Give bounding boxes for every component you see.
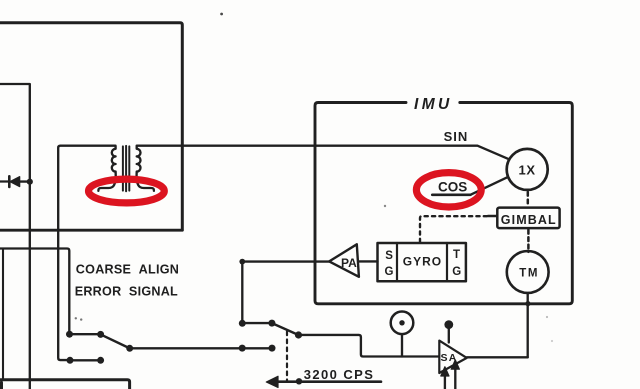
relay K1 lower contact dots — [67, 357, 74, 364]
transformer T1 secondary (right winding) — [137, 146, 154, 191]
wire: coarse align node to PA input — [242, 260, 329, 262]
wire: TM stem up — [527, 251, 529, 252]
svg-text:COARSE ALIGN: COARSE ALIGN — [76, 263, 179, 277]
wire: SA output to TM line — [467, 356, 528, 358]
wire: thick line y=230 — [0, 229, 182, 232]
gyro box divider TG — [446, 243, 448, 281]
svg-text:SA: SA — [441, 352, 458, 364]
wire: relay K1 common to K2 lower contacts — [130, 347, 272, 349]
wire: diode feed — [0, 180, 8, 182]
TM circle — [507, 251, 549, 293]
wire: COS underline — [432, 193, 470, 196]
annotation: red ellipse around COS — [416, 173, 481, 207]
diode CR1 — [9, 176, 27, 187]
wire: PA output to gyro — [359, 260, 378, 262]
transformer T1 box: top edge and left edge down to relay — [58, 146, 115, 360]
up arrow 1 into SA — [444, 371, 446, 389]
test point circle-dot — [391, 312, 414, 335]
relay K1 common dot — [126, 345, 133, 352]
relay K2 common dot — [295, 331, 302, 338]
servo amp SA triangle — [439, 341, 467, 373]
wire: COS lead to resolver — [470, 177, 508, 195]
bottom-left box top edge — [0, 380, 130, 389]
svg-text:1X: 1X — [519, 163, 536, 178]
relay K2 arm — [272, 323, 299, 335]
svg-text:GYRO: GYRO — [403, 255, 442, 269]
relay K2 upper contact bar — [242, 322, 272, 324]
svg-text:TM: TM — [519, 267, 539, 279]
svg-text:ERROR SIGNAL: ERROR SIGNAL — [75, 284, 178, 298]
svg-text:S: S — [385, 250, 393, 262]
wire: TM down through IMU edge to SA output — [527, 293, 529, 357]
wire: left bus corner x=30 — [0, 84, 30, 389]
relay K2 contact dots — [239, 320, 246, 327]
svg-text:3200 CPS: 3200 CPS — [304, 367, 374, 382]
svg-text:IMU: IMU — [414, 96, 453, 113]
junction dot: coarse align node — [239, 259, 245, 265]
junction dot: diode to bus — [27, 179, 33, 185]
wire: secondary output to IMU resolver (SIN) — [137, 146, 509, 159]
IMU box (gap in top edge for label) — [315, 103, 572, 304]
wire: test point stem — [401, 334, 403, 356]
3200 CPS reference line with left arrow — [270, 380, 381, 383]
wire: coarse align feed with corner to relay K1 — [0, 249, 69, 334]
up arrow 2 into SA — [454, 365, 456, 389]
relay K1 lower contact bar — [70, 359, 101, 361]
svg-text:T: T — [453, 249, 460, 261]
dashed link: gimbal to TM — [527, 230, 530, 251]
wire: control dot to servo amp — [448, 329, 450, 343]
transformer T1 primary (left winding) — [98, 146, 115, 191]
wire: left stub x=3 — [2, 249, 4, 380]
dashed actuator linkage K2 — [286, 332, 288, 382]
svg-text:COS: COS — [438, 180, 467, 195]
relay K1 contact dots — [66, 331, 73, 338]
svg-text:PA: PA — [341, 256, 357, 270]
svg-text:G: G — [385, 266, 394, 278]
gyro box divider SG — [396, 243, 398, 281]
dashed link: gyro to gimbal — [420, 216, 488, 242]
relay K1 upper contact bar — [70, 333, 101, 335]
junction dot on 3200 CPS line — [296, 378, 302, 384]
relay K1 arm — [101, 334, 130, 348]
transformer T1 core — [122, 146, 124, 190]
svg-text:G: G — [452, 266, 461, 278]
resolver 1X — [507, 149, 548, 190]
control node dot above servo amp — [444, 320, 453, 329]
gyro assembly box — [378, 243, 466, 281]
dashed link: resolver to gimbal — [527, 192, 530, 207]
preamp PA triangle — [329, 244, 359, 276]
gimbal box — [497, 208, 559, 229]
relay K2 lower contact dots — [239, 345, 246, 352]
wire: coarse align node down to relay K2 — [241, 262, 243, 323]
svg-text:SIN: SIN — [444, 129, 469, 144]
annotation: red ellipse around transformer leads — [89, 179, 165, 203]
svg-text:GIMBAL: GIMBAL — [501, 213, 557, 227]
junction blob at IMU bottom crossing — [525, 301, 530, 306]
bottom-left edge mark — [0, 383, 3, 389]
wire: shield box top edge and right edge — [0, 23, 182, 230]
wire: K2 common step to servo amp — [299, 335, 440, 357]
speck marks from scan — [220, 13, 223, 16]
